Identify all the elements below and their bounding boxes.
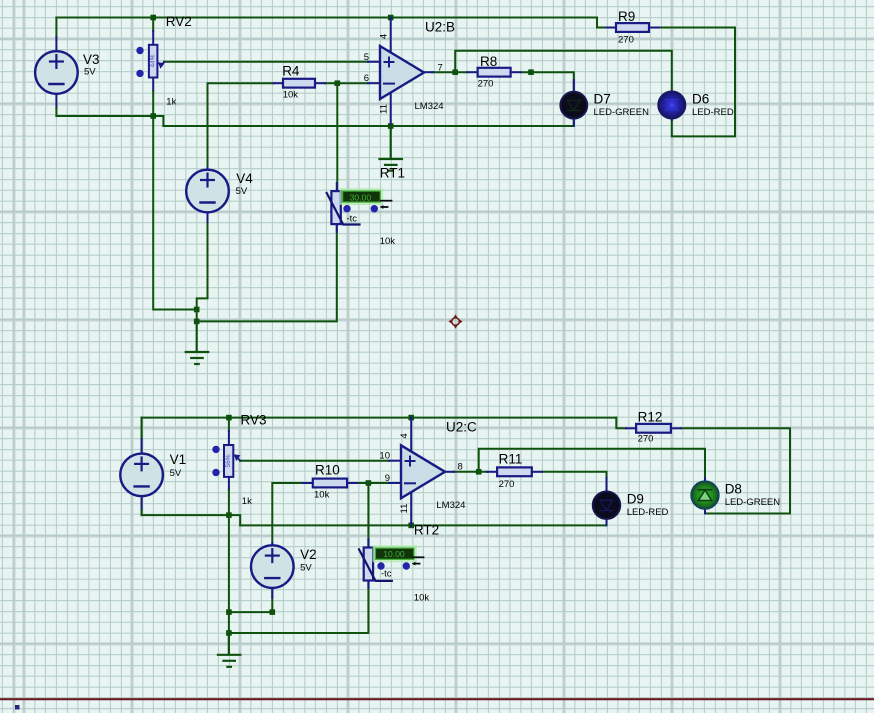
svg-text:D9: D9: [627, 492, 644, 507]
node junction V3/RV2 bottom: [150, 113, 156, 119]
resistor R10: [303, 463, 357, 501]
wire RV3 wiper to pin10: [240, 460, 389, 462]
svg-text:10: 10: [379, 451, 390, 462]
svg-text:R10: R10: [315, 463, 340, 478]
svg-text:270: 270: [478, 79, 494, 90]
ground (bottom circuit): [218, 633, 241, 667]
svg-text:V3: V3: [83, 52, 100, 67]
wire RV2 wiper to pin5: [164, 61, 368, 63]
wire top rail V+ (top circuit): [56, 17, 597, 19]
svg-text:D7: D7: [594, 92, 611, 107]
svg-text:RV2: RV2: [166, 14, 192, 29]
wire output branch up and right to D6 top: [455, 51, 672, 92]
svg-text:5V: 5V: [300, 563, 312, 574]
svg-text:7: 7: [438, 62, 443, 73]
LED D8 LED-GREEN: [691, 478, 780, 514]
voltage source V4: [186, 168, 253, 222]
node junction V1/RV3 bottom: [226, 512, 232, 518]
svg-text:11: 11: [399, 504, 410, 514]
svg-text:270: 270: [499, 479, 515, 490]
node junction R8/D7 wire: [528, 69, 534, 75]
svg-text:LM324: LM324: [415, 101, 444, 112]
wire V2 top to R10 left: [272, 483, 303, 545]
svg-text:LED-RED: LED-RED: [627, 507, 669, 518]
svg-text:RT1: RT1: [380, 166, 405, 181]
wire junction down to RT2 top: [367, 483, 369, 548]
op-amp U2:C: [379, 418, 477, 526]
resistor R8: [468, 54, 521, 90]
svg-text:270: 270: [618, 35, 634, 46]
potentiometer RV2: [136, 14, 192, 116]
wire output branch up and right to D8 top: [479, 449, 705, 482]
svg-text:56%: 56%: [225, 454, 232, 467]
svg-text:RT2: RT2: [414, 523, 439, 538]
LED D7 LED-GREEN: [560, 80, 649, 126]
wire RV3 bottom down to ground junction: [228, 515, 230, 654]
wire V4 bottom jog to ground junction: [197, 212, 208, 321]
wire V3 bottom to RV2 bottom: [56, 116, 163, 126]
thermistor RT2: [359, 523, 439, 604]
wire RT1 bottom rail to ground junction: [197, 223, 337, 321]
wire ground rail y126 (top circuit): [163, 119, 573, 126]
svg-text:U2:B: U2:B: [425, 20, 455, 35]
svg-text:10k: 10k: [414, 593, 430, 604]
svg-text:D8: D8: [725, 482, 742, 497]
svg-text:10k: 10k: [314, 490, 330, 501]
resistor R11: [487, 452, 542, 491]
resistor R4: [274, 64, 326, 101]
node junction op-amp2 pin4 top: [408, 415, 414, 421]
svg-text:R12: R12: [638, 410, 663, 425]
voltage source V1: [120, 418, 186, 515]
svg-text:8: 8: [458, 462, 463, 473]
node junction pin11 ground: [388, 123, 394, 129]
wire RV2 bottom down to ground junction: [153, 116, 197, 310]
wire R4 right to pin6: [325, 82, 368, 84]
svg-text:10k: 10k: [380, 236, 396, 247]
svg-text:6: 6: [364, 73, 369, 84]
sheet border bottom: [0, 698, 874, 700]
svg-text:V1: V1: [170, 452, 187, 467]
node junction output branch 2: [476, 469, 482, 475]
node junction RV2 top: [150, 15, 156, 21]
svg-text:5: 5: [364, 52, 369, 63]
origin marker: [448, 314, 462, 328]
wire R9 right to D6 bottom: [659, 28, 735, 137]
potentiometer RV3: [212, 413, 266, 516]
node junction pin11 ground 2: [408, 523, 414, 529]
wire R11 right to D9 top: [542, 472, 607, 492]
node junction R10/RT2: [366, 480, 372, 486]
ground (below V4 chain): [186, 321, 209, 364]
wire rail step down to R12: [616, 418, 626, 429]
wire V1 top lead: [141, 418, 143, 453]
voltage source V3: [35, 18, 99, 117]
LED D6 LED-RED: [658, 92, 734, 121]
wire R8 right to D7 top: [521, 72, 574, 92]
svg-text:1k: 1k: [166, 97, 176, 108]
svg-text:270: 270: [638, 434, 654, 445]
svg-text:RV3: RV3: [241, 413, 267, 428]
svg-text:-tc: -tc: [347, 214, 358, 225]
node junction D ground chain 2: [226, 630, 232, 636]
svg-text:D6: D6: [692, 92, 709, 107]
svg-text:5V: 5V: [236, 186, 248, 197]
node junction C ground chain 2: [226, 609, 232, 615]
node junction A ground chain top: [194, 307, 200, 313]
svg-text:30.00: 30.00: [350, 192, 372, 202]
svg-text:R11: R11: [499, 452, 523, 467]
svg-text:V4: V4: [236, 171, 253, 186]
wire top rail V+ (bottom circuit): [142, 417, 617, 419]
voltage source V2: [251, 543, 317, 598]
svg-text:V2: V2: [300, 547, 317, 562]
svg-text:44%: 44%: [150, 54, 157, 67]
wire R10 right to pin9: [357, 482, 389, 484]
svg-text:-tc: -tc: [381, 568, 392, 579]
node junction B ground chain: [194, 319, 200, 325]
svg-text:11: 11: [379, 104, 390, 114]
node junction R4/RT1: [335, 80, 341, 86]
svg-text:LED-GREEN: LED-GREEN: [725, 497, 781, 508]
wire ground rail y525 (bottom circuit): [240, 519, 606, 526]
svg-text:10k: 10k: [283, 90, 299, 101]
wire RT2 bottom rail to ground chain: [229, 580, 369, 633]
wire pin7 output to R8 left: [432, 71, 468, 73]
LED D9 LED-RED: [593, 478, 669, 525]
thermistor RT1: [327, 166, 405, 248]
RT2 temperature display 10.00: [374, 546, 424, 570]
svg-text:5V: 5V: [170, 468, 182, 479]
node junction V2 bottom corner: [270, 609, 276, 615]
op-amp U2:B: [364, 18, 455, 127]
svg-text:5V: 5V: [84, 67, 96, 78]
resistor R9: [607, 9, 660, 46]
svg-text:R4: R4: [282, 64, 300, 79]
wire R12 right to D8 bottom: [681, 428, 790, 513]
svg-text:U2:C: U2:C: [446, 420, 477, 435]
svg-text:LED-RED: LED-RED: [692, 107, 734, 118]
svg-text:10.00: 10.00: [383, 549, 405, 559]
svg-text:R8: R8: [480, 54, 497, 69]
svg-text:1k: 1k: [242, 496, 252, 507]
wire top rail step down to R9: [597, 18, 607, 28]
svg-text:LED-GREEN: LED-GREEN: [594, 107, 650, 118]
svg-text:9: 9: [385, 473, 390, 484]
node junction RV3 top: [226, 415, 232, 421]
svg-text:R9: R9: [618, 9, 635, 24]
sheet corner mark bottom-left: [15, 705, 20, 710]
wire pin8 output to R11 left: [453, 471, 487, 473]
svg-text:4: 4: [379, 34, 390, 39]
wire junction down to RT1 top: [336, 83, 338, 191]
ground (below op-amp U2:B): [380, 126, 403, 171]
RT1 temperature display 30.00: [341, 189, 392, 212]
wire V2 bottom jog to ground chain: [229, 589, 272, 612]
svg-text:LM324: LM324: [436, 500, 465, 511]
wire V1 bottom to RV3 bottom: [142, 497, 241, 526]
node junction output branch: [452, 69, 458, 75]
wire V4 top to R4 left: [208, 83, 274, 170]
resistor R12: [626, 410, 681, 445]
svg-text:4: 4: [399, 433, 410, 438]
node junction op-amp pin4 top: [388, 15, 394, 21]
